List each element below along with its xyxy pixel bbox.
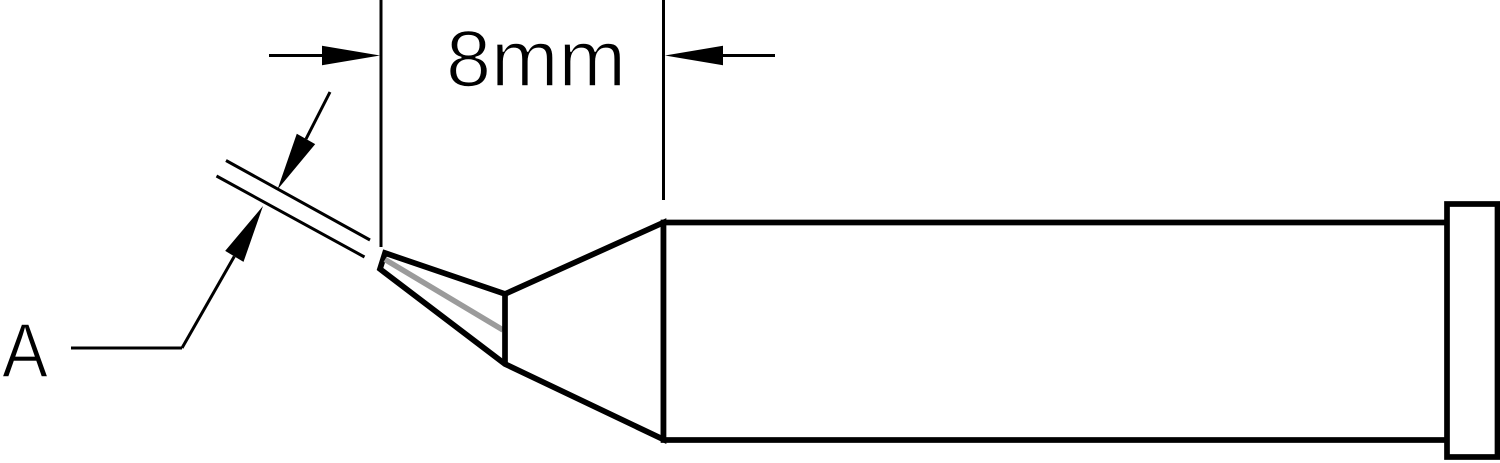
wire: bend junction vertical edge (502, 294, 508, 364)
node soldering tip cone outline (380, 223, 664, 440)
svg-text:A: A (2, 308, 49, 394)
node arrowhead-left pointing right (322, 46, 380, 65)
node arrowhead-down-left (278, 134, 316, 190)
wire: right extension line of 8mm dimension (662, 0, 665, 200)
wire: upper parallel tick line (226, 161, 370, 241)
wire: leader horizontal to label A (71, 347, 182, 350)
node arrowhead-right pointing left (665, 46, 723, 65)
wire: left extension line of 8mm dimension (380, 0, 383, 247)
wire: lower tick arrow leader diagonal (182, 256, 234, 348)
node end cap (1447, 204, 1498, 457)
node arrowhead-up-right (225, 206, 263, 262)
node cylindrical body (664, 223, 1449, 441)
node gray bore line inside tip (385, 260, 503, 331)
wire: left dimension arrow tail (269, 54, 324, 57)
wire: right dimension arrow tail (721, 54, 775, 57)
wire: lower parallel tick line (217, 176, 365, 257)
wire: upper tick arrow leader (306, 92, 330, 139)
svg-text:8mm: 8mm (446, 14, 626, 103)
